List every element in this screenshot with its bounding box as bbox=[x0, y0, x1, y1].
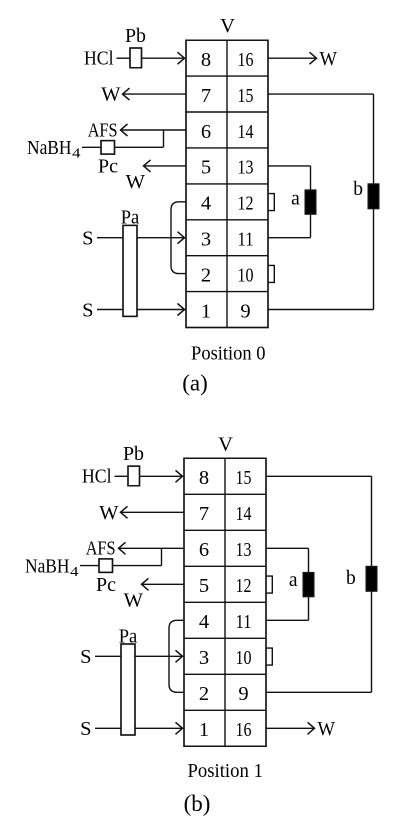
svg-text:5: 5 bbox=[199, 575, 209, 597]
svg-text:W: W bbox=[124, 589, 144, 611]
svg-text:9: 9 bbox=[240, 300, 250, 322]
svg-text:AFS: AFS bbox=[88, 119, 118, 141]
svg-text:Pc: Pc bbox=[96, 574, 116, 596]
svg-text:(a): (a) bbox=[182, 371, 208, 396]
svg-text:(b): (b) bbox=[184, 791, 211, 816]
svg-text:11: 11 bbox=[238, 229, 254, 251]
svg-text:11: 11 bbox=[236, 611, 252, 633]
svg-text:3: 3 bbox=[201, 229, 211, 251]
svg-text:Pb: Pb bbox=[125, 25, 146, 47]
svg-text:a: a bbox=[291, 189, 300, 210]
svg-text:13: 13 bbox=[238, 157, 254, 179]
svg-text:7: 7 bbox=[201, 85, 211, 107]
svg-text:7: 7 bbox=[199, 503, 209, 525]
svg-text:10: 10 bbox=[236, 647, 252, 669]
svg-text:15: 15 bbox=[238, 85, 254, 107]
svg-text:b: b bbox=[353, 179, 363, 200]
svg-text:Pb: Pb bbox=[123, 443, 144, 465]
svg-text:S: S bbox=[82, 299, 93, 321]
svg-text:12: 12 bbox=[238, 193, 254, 215]
svg-text:14: 14 bbox=[238, 121, 254, 143]
svg-text:HCl: HCl bbox=[84, 48, 114, 70]
svg-text:6: 6 bbox=[201, 121, 211, 143]
svg-text:V: V bbox=[220, 15, 235, 37]
svg-text:NaBH: NaBH bbox=[25, 555, 70, 577]
svg-text:1: 1 bbox=[199, 719, 209, 741]
svg-text:S: S bbox=[82, 228, 93, 250]
svg-text:AFS: AFS bbox=[86, 538, 116, 560]
svg-text:Pc: Pc bbox=[98, 156, 118, 178]
svg-text:10: 10 bbox=[238, 264, 254, 286]
svg-text:Position 1: Position 1 bbox=[187, 760, 263, 782]
svg-text:15: 15 bbox=[236, 467, 252, 489]
svg-text:S: S bbox=[80, 646, 91, 668]
svg-text:S: S bbox=[80, 718, 91, 740]
svg-text:5: 5 bbox=[201, 157, 211, 179]
svg-text:6: 6 bbox=[199, 539, 209, 561]
svg-text:4: 4 bbox=[72, 147, 81, 162]
svg-text:8: 8 bbox=[201, 49, 211, 71]
svg-text:16: 16 bbox=[238, 49, 254, 71]
svg-text:HCl: HCl bbox=[82, 466, 112, 488]
svg-text:4: 4 bbox=[201, 193, 211, 215]
svg-text:1: 1 bbox=[201, 300, 211, 322]
svg-text:W: W bbox=[126, 171, 146, 193]
svg-text:V: V bbox=[218, 433, 233, 455]
svg-text:W: W bbox=[101, 84, 121, 106]
svg-text:14: 14 bbox=[236, 503, 252, 525]
svg-text:Pa: Pa bbox=[121, 207, 140, 229]
svg-text:13: 13 bbox=[236, 539, 252, 561]
svg-text:3: 3 bbox=[199, 647, 209, 669]
svg-text:b: b bbox=[346, 568, 356, 589]
svg-text:NaBH: NaBH bbox=[27, 137, 72, 159]
svg-text:2: 2 bbox=[201, 264, 211, 286]
svg-text:4: 4 bbox=[199, 611, 209, 633]
svg-text:Position 0: Position 0 bbox=[191, 343, 266, 365]
svg-text:2: 2 bbox=[199, 683, 209, 705]
svg-text:8: 8 bbox=[199, 467, 209, 489]
svg-text:12: 12 bbox=[236, 575, 252, 597]
svg-text:9: 9 bbox=[238, 683, 248, 705]
svg-text:W: W bbox=[99, 502, 119, 524]
svg-text:Pa: Pa bbox=[119, 625, 138, 647]
svg-text:W: W bbox=[318, 718, 336, 740]
svg-text:a: a bbox=[289, 570, 298, 591]
svg-text:4: 4 bbox=[70, 565, 79, 580]
svg-text:W: W bbox=[320, 48, 338, 70]
svg-text:16: 16 bbox=[236, 719, 252, 741]
